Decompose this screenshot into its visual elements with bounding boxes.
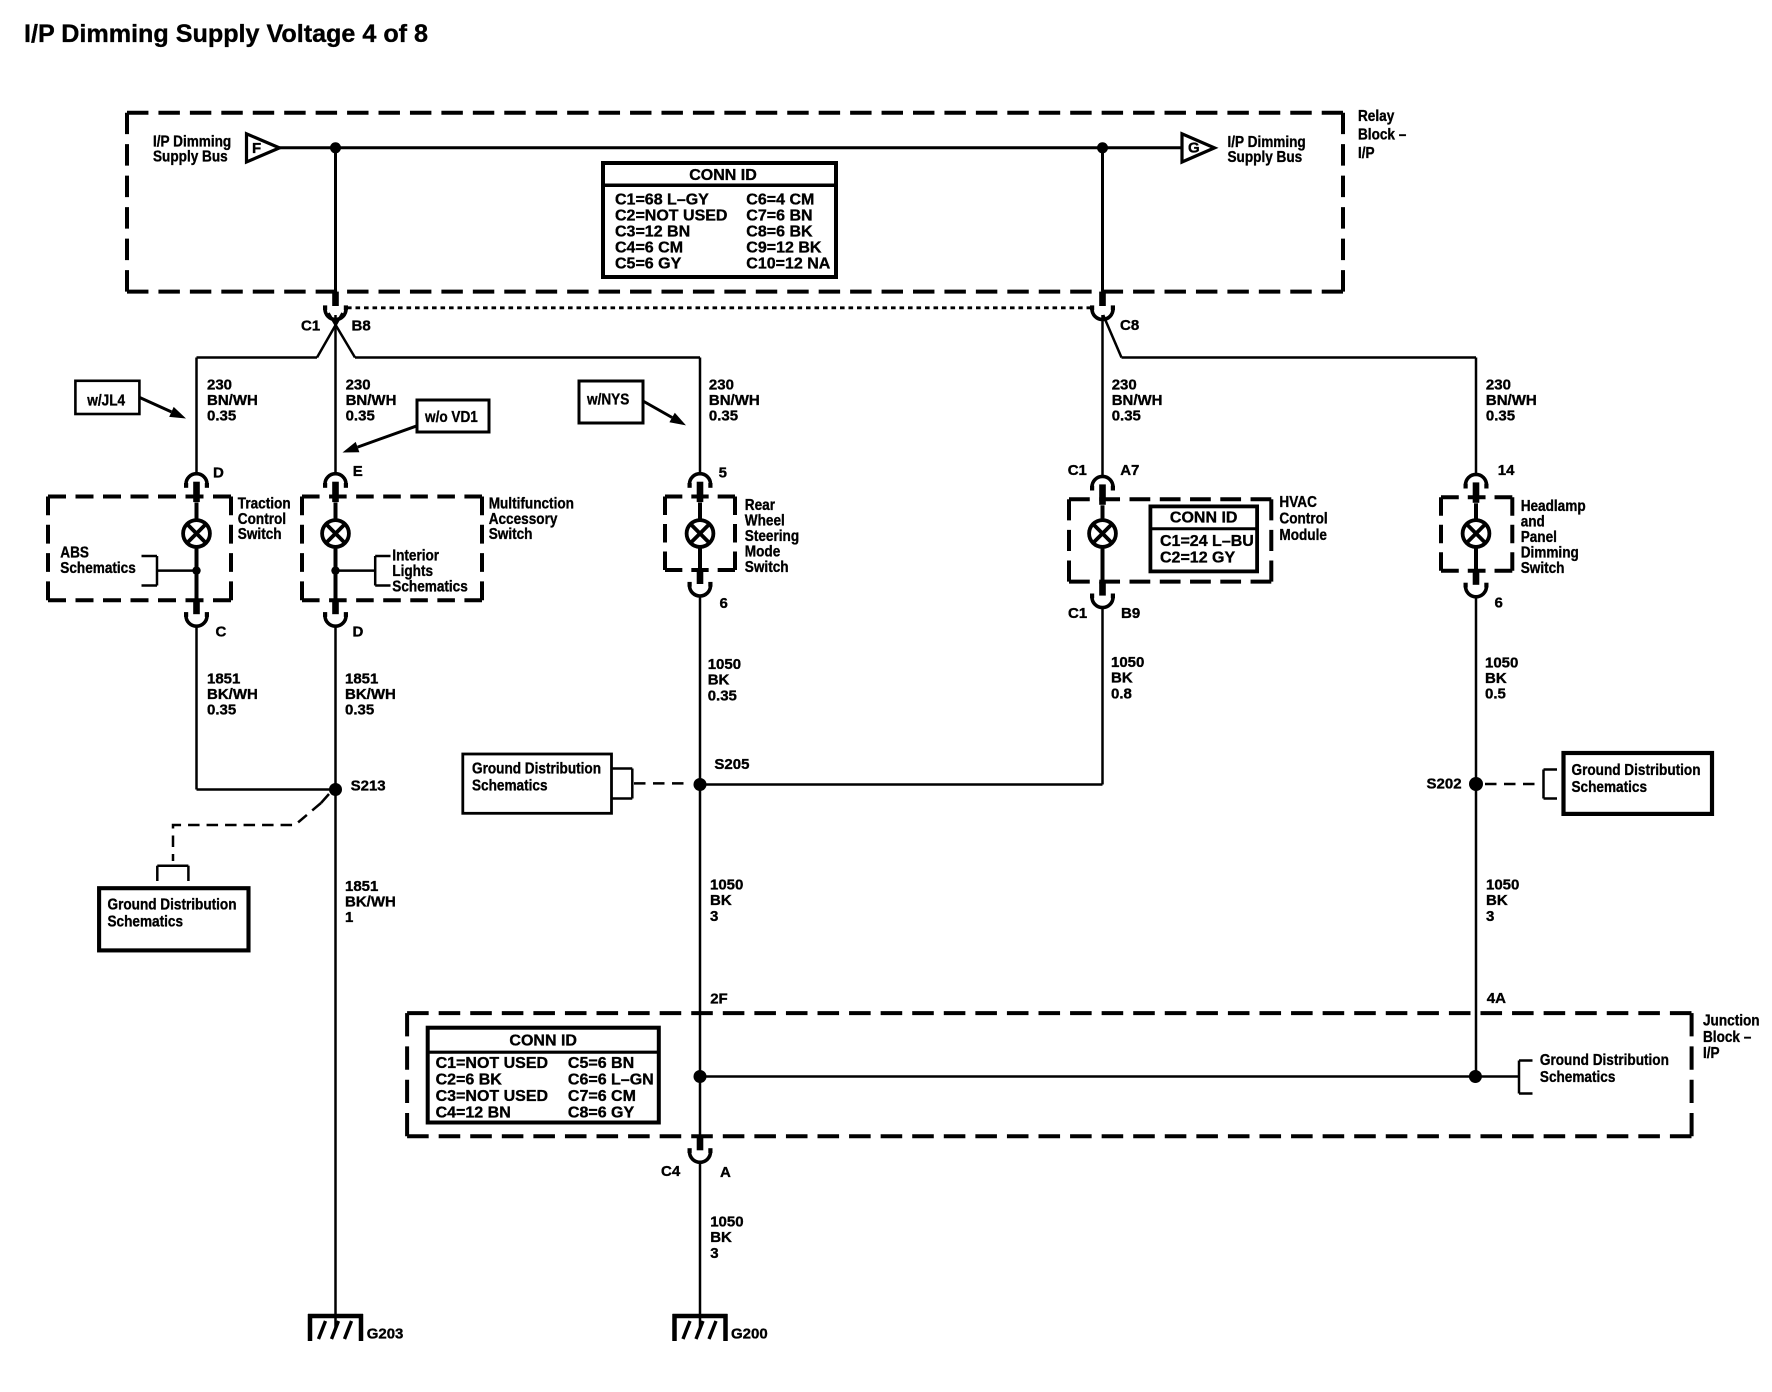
svg-text:6: 6 [1495,595,1503,612]
svg-text:CONN ID: CONN ID [1170,510,1238,527]
svg-text:230: 230 [1486,376,1511,393]
svg-text:0.5: 0.5 [1485,686,1506,703]
svg-text:1050: 1050 [1485,654,1518,671]
svg-text:C1=24 L–BU: C1=24 L–BU [1160,533,1254,550]
svg-text:G200: G200 [731,1326,768,1343]
svg-text:0.35: 0.35 [1486,408,1515,425]
svg-text:Junction: Junction [1703,1013,1760,1030]
svg-text:Schematics: Schematics [1540,1069,1616,1086]
svg-text:C4: C4 [661,1163,681,1180]
svg-text:w/NYS: w/NYS [586,392,629,409]
svg-text:230: 230 [207,376,232,393]
svg-text:C1: C1 [301,317,320,334]
svg-text:S202: S202 [1427,775,1462,792]
svg-text:C4=12 BN: C4=12 BN [436,1104,511,1121]
svg-text:Schematics: Schematics [1572,779,1648,796]
svg-text:C10=12 NA: C10=12 NA [746,256,830,273]
svg-text:BK/WH: BK/WH [345,894,396,911]
svg-text:1050: 1050 [710,876,743,893]
svg-text:0.35: 0.35 [1112,408,1141,425]
svg-text:C5=6 BN: C5=6 BN [568,1055,634,1072]
svg-text:3: 3 [710,908,718,925]
svg-text:0.8: 0.8 [1111,685,1132,702]
svg-text:B9: B9 [1121,605,1140,622]
svg-text:G: G [1188,139,1200,156]
svg-text:BN/WH: BN/WH [1486,392,1537,409]
svg-text:C4=6 CM: C4=6 CM [615,240,683,257]
svg-text:Ground Distribution: Ground Distribution [1572,762,1701,779]
svg-text:Relay: Relay [1358,108,1395,125]
svg-text:C2=6 BK: C2=6 BK [436,1072,503,1089]
svg-text:C: C [216,623,227,640]
svg-text:5: 5 [719,464,727,481]
svg-text:1851: 1851 [207,670,240,687]
svg-text:Control: Control [1279,511,1327,528]
svg-text:I/P: I/P [1703,1045,1720,1062]
svg-text:C2=NOT USED: C2=NOT USED [615,208,727,225]
svg-text:230: 230 [1112,376,1137,393]
svg-text:F: F [252,140,261,157]
svg-text:C9=12 BK: C9=12 BK [746,240,822,257]
svg-text:Schematics: Schematics [392,579,468,596]
svg-text:0.35: 0.35 [708,687,737,704]
svg-text:I/P: I/P [1358,145,1375,162]
svg-text:4A: 4A [1487,990,1506,1007]
svg-text:HVAC: HVAC [1279,494,1317,511]
svg-text:Block –: Block – [1703,1029,1751,1046]
svg-text:0.35: 0.35 [709,408,738,425]
svg-text:Supply Bus: Supply Bus [1228,149,1303,166]
svg-text:D: D [353,623,364,640]
svg-text:Schematics: Schematics [108,914,184,931]
svg-text:E: E [353,463,363,480]
svg-text:C1: C1 [1068,605,1087,622]
svg-text:BK: BK [710,892,732,909]
svg-text:CONN ID: CONN ID [509,1032,577,1049]
svg-text:C3=12 BN: C3=12 BN [615,224,690,241]
svg-text:Switch: Switch [489,526,533,543]
svg-text:3: 3 [710,1245,718,1262]
svg-text:Ground Distribution: Ground Distribution [1540,1052,1669,1069]
svg-text:C8=6 BK: C8=6 BK [746,224,813,241]
svg-text:C3=NOT USED: C3=NOT USED [436,1088,548,1105]
svg-text:G203: G203 [367,1326,404,1343]
svg-text:S205: S205 [714,756,749,773]
svg-text:6: 6 [720,595,728,612]
svg-text:C7=6 CM: C7=6 CM [568,1088,636,1105]
svg-text:0.35: 0.35 [346,408,375,425]
svg-text:C6=6 L–GN: C6=6 L–GN [568,1072,654,1089]
svg-text:1851: 1851 [345,878,378,895]
svg-text:BK/WH: BK/WH [207,686,258,703]
svg-text:D: D [213,464,224,481]
svg-text:S213: S213 [351,777,386,794]
svg-text:BK: BK [1111,670,1133,687]
svg-text:C7=6 BN: C7=6 BN [746,208,812,225]
svg-text:1050: 1050 [1486,876,1519,893]
svg-text:Switch: Switch [745,559,789,576]
svg-text:1: 1 [345,909,353,926]
svg-text:CONN ID: CONN ID [689,167,757,184]
svg-text:BK/WH: BK/WH [345,686,396,703]
svg-text:BK: BK [710,1229,732,1246]
svg-text:C2=12 GY: C2=12 GY [1160,550,1235,567]
svg-text:14: 14 [1498,462,1515,479]
svg-text:C8: C8 [1120,317,1139,334]
svg-text:Switch: Switch [1521,560,1565,577]
svg-text:C1=68 L–GY: C1=68 L–GY [615,192,709,209]
svg-text:BK: BK [708,672,730,689]
svg-text:Ground Distribution: Ground Distribution [108,896,237,913]
svg-text:C1=NOT USED: C1=NOT USED [436,1055,548,1072]
svg-text:2F: 2F [710,991,728,1008]
svg-text:BN/WH: BN/WH [207,392,258,409]
svg-text:0.35: 0.35 [207,702,236,719]
svg-text:0.35: 0.35 [345,702,374,719]
svg-text:230: 230 [709,376,734,393]
svg-text:BK: BK [1486,892,1508,909]
svg-text:C5=6 GY: C5=6 GY [615,256,682,273]
svg-text:1050: 1050 [710,1213,743,1230]
svg-text:A: A [720,1164,731,1181]
svg-text:Schematics: Schematics [472,778,548,795]
svg-text:C1: C1 [1068,462,1087,479]
svg-text:1050: 1050 [708,656,741,673]
svg-text:I/P Dimming Supply Voltage 4 o: I/P Dimming Supply Voltage 4 of 8 [24,20,428,48]
svg-text:A7: A7 [1120,462,1139,479]
svg-text:Schematics: Schematics [60,560,136,577]
svg-text:Module: Module [1279,527,1327,544]
svg-text:BN/WH: BN/WH [346,392,397,409]
svg-text:0.35: 0.35 [207,408,236,425]
svg-text:w/JL4: w/JL4 [86,393,125,410]
svg-text:Ground Distribution: Ground Distribution [472,761,601,778]
svg-text:w/o VD1: w/o VD1 [424,409,478,426]
svg-text:Supply Bus: Supply Bus [153,149,228,166]
svg-text:Switch: Switch [238,526,282,543]
svg-text:BN/WH: BN/WH [1112,392,1163,409]
svg-text:3: 3 [1486,908,1494,925]
svg-text:BK: BK [1485,670,1507,687]
svg-text:C6=4 CM: C6=4 CM [746,192,814,209]
svg-text:C8=6 GY: C8=6 GY [568,1104,635,1121]
svg-text:230: 230 [346,376,371,393]
svg-text:Block –: Block – [1358,127,1406,144]
svg-text:B8: B8 [352,317,371,334]
svg-text:1851: 1851 [345,670,378,687]
svg-text:BN/WH: BN/WH [709,392,760,409]
svg-text:1050: 1050 [1111,654,1144,671]
